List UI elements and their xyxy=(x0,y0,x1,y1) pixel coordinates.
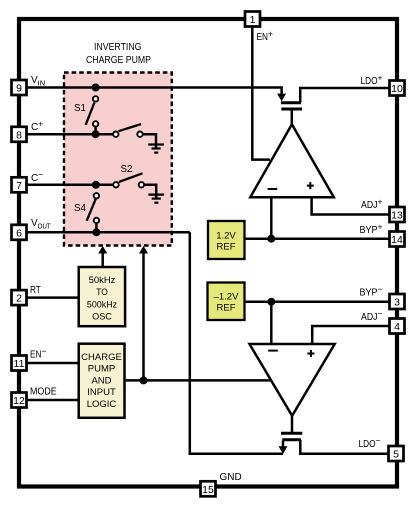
svg-text:12: 12 xyxy=(13,395,25,407)
wire U1 minus input to 1.2V ref xyxy=(270,197,273,239)
ground for S3 xyxy=(148,145,164,153)
svg-text:7: 7 xyxy=(16,180,22,192)
label minus input U1 xyxy=(268,188,278,190)
wire C+ (pin 8 to S1/S3) xyxy=(27,133,116,136)
svg-text:–1.2V: –1.2V xyxy=(214,292,239,303)
svg-text:REF: REF xyxy=(217,303,236,314)
pin 15 xyxy=(201,481,216,496)
wire OSC to charge pump xyxy=(101,253,104,268)
svg-text:S2: S2 xyxy=(121,164,133,175)
svg-text:MODE: MODE xyxy=(30,387,57,398)
svg-text:6: 6 xyxy=(16,227,22,239)
arrow lower PMOS source xyxy=(279,446,288,454)
inverting charge pump block (pink dashed box) xyxy=(64,73,172,246)
wire EN+ (pin 1 down to upper amp) xyxy=(252,27,270,160)
wire VOUT (pin 6 through charge pump) xyxy=(27,231,190,234)
label plus input U2 xyxy=(307,350,314,357)
svg-text:8: 8 xyxy=(16,129,22,141)
label plus input U1 xyxy=(307,182,314,189)
arrow OSC into charge pump xyxy=(98,246,107,254)
wire U2 minus input to -1.2V ref xyxy=(270,302,273,344)
pin 3 xyxy=(390,294,405,309)
svg-text:PUMP: PUMP xyxy=(88,364,115,375)
wire C- (pin 7 to S4/S2) xyxy=(27,184,116,187)
wire RT (pin 2 to OSC) xyxy=(27,296,79,299)
charge pump and input logic block xyxy=(79,344,125,418)
pin 4 xyxy=(390,319,405,334)
switch S1 (VIN to C+) xyxy=(86,84,100,139)
svg-text:S4: S4 xyxy=(74,203,87,214)
upper PMOS pass transistor xyxy=(281,103,302,126)
wire VOUT down to LDO- pass transistor xyxy=(190,232,283,453)
svg-text:15: 15 xyxy=(202,484,214,496)
wire logic up to charge pump xyxy=(142,253,145,381)
svg-text:4: 4 xyxy=(394,321,400,333)
op-amp U1 (LDO+ error amp) xyxy=(250,124,333,197)
pin 2 xyxy=(12,290,27,305)
pin 14 xyxy=(390,232,405,247)
pin 9 xyxy=(12,80,27,95)
pin 5 xyxy=(389,446,404,461)
wire logic output to lower amp xyxy=(125,379,271,382)
svg-text:13: 13 xyxy=(391,210,403,222)
wire BYP- (-1.2V ref to pin 3) xyxy=(245,300,390,303)
pin 12 xyxy=(12,393,27,408)
lower PMOS pass transistor xyxy=(281,433,302,447)
svg-text:50kHz: 50kHz xyxy=(89,275,116,286)
svg-text:INPUT: INPUT xyxy=(87,387,116,398)
wire U2 plus input to ADJ- pin 4 xyxy=(312,326,389,344)
svg-text:LOGIC: LOGIC xyxy=(87,399,117,410)
svg-text:GND: GND xyxy=(220,472,242,483)
node BYP+ junction xyxy=(267,235,275,243)
svg-text:3: 3 xyxy=(394,297,400,309)
pin 11 xyxy=(12,356,27,371)
ground for S2 xyxy=(148,195,164,203)
oscillator block xyxy=(79,267,125,326)
switch S2 (C- to GND) xyxy=(92,173,156,198)
label INVERTING CHARGE PUMP xyxy=(86,42,151,66)
pin 7 xyxy=(12,177,27,192)
pin 6 xyxy=(12,225,27,240)
svg-text:9: 9 xyxy=(16,83,22,95)
svg-text:5: 5 xyxy=(393,449,399,461)
pin 10 xyxy=(390,81,405,96)
switch S4 (C- to VOUT) xyxy=(87,193,101,236)
wire U1 plus input to ADJ+ pin 13 xyxy=(312,197,389,214)
svg-text:RT: RT xyxy=(30,285,41,296)
wire MODE (pin 12 to logic) xyxy=(27,399,79,402)
wire U2 output to lower PMOS gate xyxy=(291,416,294,433)
svg-text:AND: AND xyxy=(91,376,111,387)
svg-text:10: 10 xyxy=(391,83,403,95)
op-amp U2 (LDO- error amp) xyxy=(250,344,335,416)
svg-text:CHARGE: CHARGE xyxy=(81,352,122,363)
pin 8 xyxy=(12,127,27,142)
svg-text:1: 1 xyxy=(250,14,256,26)
svg-text:1.2V: 1.2V xyxy=(216,231,236,242)
wire LDO+ (PMOS drain to pin 10) xyxy=(300,88,389,103)
svg-text:OSC: OSC xyxy=(92,312,112,323)
svg-text:500kHz: 500kHz xyxy=(87,300,117,311)
-1.2V reference block xyxy=(208,283,245,321)
1.2V reference block xyxy=(208,221,245,259)
svg-text:INVERTING: INVERTING xyxy=(94,42,142,53)
switch S3 (C+ to GND, unlabeled) xyxy=(113,124,156,148)
arrow into upper PMOS source xyxy=(277,94,286,102)
svg-text:2: 2 xyxy=(16,293,22,305)
wire VIN (pin 9 to upper PMOS source) xyxy=(27,88,282,95)
pin 13 xyxy=(390,207,405,222)
svg-text:CHARGE PUMP: CHARGE PUMP xyxy=(86,55,151,66)
label minus input U2 xyxy=(268,350,278,352)
svg-text:11: 11 xyxy=(14,358,25,370)
svg-text:TO: TO xyxy=(96,287,108,298)
svg-text:REF: REF xyxy=(217,242,236,253)
wire EN- (pin 11 to logic) xyxy=(27,362,79,365)
node BYP- junction xyxy=(267,298,275,306)
node logic/charge-pump junction xyxy=(140,376,148,384)
wire LDO- (lower PMOS drain to pin 5) xyxy=(300,440,388,454)
arrow logic into charge pump xyxy=(139,246,148,254)
svg-text:S1: S1 xyxy=(74,103,86,114)
wire BYP+ (1.2V ref to pin 14) xyxy=(245,237,390,240)
svg-text:14: 14 xyxy=(391,234,403,246)
pin 1 xyxy=(245,12,260,27)
